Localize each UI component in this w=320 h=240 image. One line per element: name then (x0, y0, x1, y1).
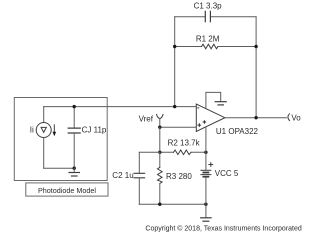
svg-text:CJ 11p: CJ 11p (82, 125, 107, 134)
node R3 bottom junction (158, 203, 161, 206)
svg-text:R1 2M: R1 2M (196, 34, 220, 43)
wire non-inverting input net (160, 126, 197, 128)
wire R2 net (160, 151, 206, 153)
svg-text:R2 13.7k: R2 13.7k (168, 139, 201, 148)
wire C1 net top (175, 16, 256, 18)
svg-text:Ii: Ii (30, 126, 34, 135)
label Vo (291, 113, 301, 122)
label U1 OPA322 (216, 127, 259, 136)
wire photodiode bottom (44, 167, 74, 169)
node R2 right junction (204, 151, 207, 154)
node battery bottom junction (204, 203, 207, 206)
ground photodiode (69, 168, 79, 176)
label C1 3.3p (194, 2, 223, 11)
wire feedback left vertical (174, 17, 176, 107)
wire R1 net (175, 46, 256, 48)
svg-text:Photodiode Model: Photodiode Model (38, 186, 96, 195)
label R3 280 (166, 172, 192, 181)
label copyright (145, 225, 301, 233)
node feedback-right / R1 junction (254, 45, 257, 48)
svg-text:C2 1u: C2 1u (112, 171, 133, 180)
node inverting / feedback junction (173, 105, 176, 108)
node CJ bottom junction (73, 167, 76, 170)
resistor R1 (202, 44, 218, 49)
svg-text:C1 3.3p: C1 3.3p (194, 2, 223, 11)
label CJ 11p (82, 125, 107, 134)
resistor R3 (158, 152, 163, 204)
op-amp U1 (196, 104, 225, 131)
ground op-amp V- (215, 102, 226, 105)
wire Vref vertical (159, 127, 161, 152)
photodiode model box (14, 98, 107, 181)
resistor R2 (174, 150, 192, 155)
capacitor C1 (205, 11, 210, 21)
label C2 1u (112, 171, 133, 180)
label Ii (30, 126, 34, 135)
ground below battery (201, 204, 211, 221)
label R1 2M (196, 34, 220, 43)
node CJ top junction (73, 105, 76, 108)
label VCC 5 (215, 169, 239, 178)
node feedback-left / R1 junction (173, 45, 176, 48)
svg-text:R3 280: R3 280 (166, 172, 192, 181)
capacitor CJ (68, 107, 80, 169)
node Vref junction (158, 126, 161, 129)
capacitor C2 (134, 152, 160, 204)
wire output net (225, 117, 286, 119)
battery VCC (201, 152, 213, 204)
label R2 13.7k (168, 139, 201, 148)
wire inverting input net (44, 106, 197, 108)
wire V- pin to ground (206, 92, 221, 108)
svg-text:U1 OPA322: U1 OPA322 (216, 127, 259, 136)
label Vref (139, 114, 154, 123)
svg-text:Vo: Vo (291, 113, 301, 122)
svg-text:Copyright © 2018, Texas Instru: Copyright © 2018, Texas Instruments Inco… (145, 225, 301, 233)
terminal Vref (157, 114, 163, 127)
svg-text:VCC 5: VCC 5 (215, 169, 239, 178)
node output / feedback junction (254, 116, 257, 119)
current source Ii (36, 107, 56, 169)
terminal Vo (288, 114, 290, 121)
node R2 left junction (158, 151, 161, 154)
wire bottom net (139, 203, 206, 205)
label Photodiode Model (26, 183, 108, 196)
wire V+ pin (205, 127, 207, 152)
wire feedback right vertical (255, 17, 257, 118)
svg-text:Vref: Vref (139, 114, 154, 123)
